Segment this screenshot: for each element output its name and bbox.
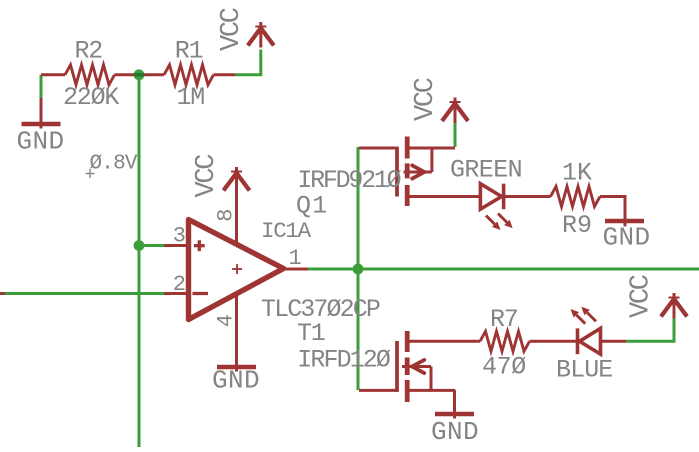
junction node pin3 tap — [134, 240, 145, 251]
wire Q1 source to VCC — [454, 122, 457, 147]
svg-text:VCC: VCC — [411, 77, 441, 121]
resistor R7 470 — [480, 331, 530, 351]
svg-text:1: 1 — [289, 246, 302, 271]
power VCC2 above op-amp — [235, 167, 238, 193]
pin 3 — [164, 244, 188, 247]
op-amp center small plus — [232, 268, 242, 270]
op-amp U1 IC1A triangle — [189, 220, 284, 320]
ground GND2 below op-amp — [217, 365, 256, 369]
svg-text:GREEN: GREEN — [450, 155, 522, 184]
wire BLUE LED to VCC — [626, 315, 674, 341]
resistor R9 1K — [551, 187, 601, 207]
svg-text:VCC: VCC — [627, 274, 657, 318]
op-amp plus input mark — [194, 244, 205, 247]
junction node output — [353, 264, 364, 275]
wire output horizontal to right edge — [307, 268, 699, 271]
wire R1 right to VCC corner — [235, 50, 260, 75]
junction node R2-R1 divider — [134, 69, 145, 80]
svg-text:8: 8 — [214, 209, 239, 222]
LED GREEN emission arrows — [486, 216, 495, 225]
svg-text:3: 3 — [173, 224, 186, 249]
transistor T1 IRFD120 N-MOSFET — [359, 389, 397, 392]
LED BLUE — [576, 328, 580, 354]
pin 8 stem to VCC — [235, 167, 238, 244]
ground GND1 below R2 — [40, 98, 43, 129]
svg-text:4: 4 — [213, 314, 238, 327]
wire pin2 from left edge — [0, 292, 164, 295]
wire net 0.8V vertical main — [138, 75, 141, 447]
svg-text:IRFD12Ø: IRFD12Ø — [297, 345, 391, 374]
wire R2 left to GND corner — [40, 75, 43, 100]
wire stub left edge pin2 — [0, 292, 5, 295]
pin 2 — [164, 292, 188, 295]
transistor Q1 IRFD9210 P-MOSFET — [359, 147, 397, 150]
pin 4 stem to GND — [235, 295, 238, 372]
svg-text:BLUE: BLUE — [556, 355, 612, 384]
LED BLUE emission arrows — [576, 315, 585, 324]
svg-text:1K: 1K — [562, 159, 592, 188]
op-amp minus input mark — [193, 292, 209, 295]
resistor R1 1M — [139, 73, 164, 76]
svg-text:22ØK: 22ØK — [63, 83, 119, 112]
wire pin3 from junction — [139, 244, 164, 247]
svg-text:47Ø: 47Ø — [482, 352, 526, 381]
svg-text:R2: R2 — [75, 37, 103, 66]
LED GREEN — [480, 184, 501, 210]
svg-text:VCC: VCC — [217, 7, 247, 51]
svg-text:Q1: Q1 — [296, 192, 329, 221]
power VCC3 above Q1 — [454, 98, 457, 124]
ground GND3 right of R9 — [624, 218, 627, 226]
svg-text:R7: R7 — [490, 305, 518, 334]
svg-text:GND: GND — [17, 127, 65, 157]
svg-text:VCC: VCC — [192, 154, 222, 198]
svg-text:2: 2 — [173, 272, 186, 297]
svg-text:R9: R9 — [562, 211, 592, 240]
power VCC1 top-left — [259, 22, 262, 48]
ground GND4 below T1 — [453, 390, 456, 419]
svg-text:1M: 1M — [177, 83, 205, 112]
resistor R2 220K — [41, 73, 65, 76]
pin 1 output — [284, 268, 309, 271]
svg-text:GND: GND — [431, 417, 479, 447]
svg-text:Ø.8V: Ø.8V — [90, 153, 138, 176]
wire gates vertical Q1-T1 — [357, 147, 360, 390]
svg-text:GND: GND — [603, 223, 651, 253]
svg-text:R1: R1 — [175, 37, 203, 66]
svg-text:IC1A: IC1A — [261, 218, 312, 244]
svg-text:GND: GND — [212, 366, 260, 396]
power VCC4 right — [673, 293, 676, 319]
svg-text:T1: T1 — [297, 319, 325, 348]
